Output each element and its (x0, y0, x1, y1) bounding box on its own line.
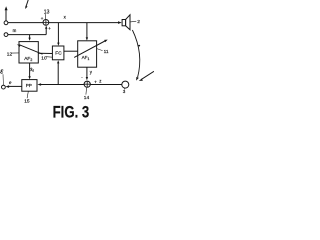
post processor PP (15) (22, 80, 37, 92)
wire: PP output to node e (8, 85, 22, 87)
svg-text:FC: FC (55, 51, 62, 57)
leader for label 13 (44, 14, 47, 19)
svg-text:13: 13 (44, 9, 50, 15)
leader for label 14 (85, 88, 88, 95)
wire: branch from m line down into AF2 (29, 35, 31, 39)
adaptive filter AF1 (11) (78, 41, 97, 67)
wire: junction 14 to PP (40, 84, 84, 86)
leader for label 12 (11, 52, 19, 54)
wire: error branch up into FC bottom (57, 63, 59, 85)
arrow up from node A (5, 10, 7, 21)
svg-text:11: 11 (104, 49, 109, 55)
wire: riser up into junction 13 (45, 28, 47, 34)
leader for label 10 (46, 56, 53, 59)
svg-text:x̂s: x̂s (30, 67, 34, 73)
leader for label 15 (27, 91, 28, 98)
svg-text:15: 15 (24, 99, 30, 105)
loudspeaker 2 (122, 20, 126, 26)
svg-text:+: + (48, 26, 51, 31)
wire 10: AF2 to FC (38, 52, 52, 54)
node B (m input terminal) (4, 33, 8, 37)
leader for label 11 (97, 49, 103, 51)
dot on arc (138, 45, 140, 47)
wire: node B to riser of junction 13 (m line) (8, 34, 46, 36)
summing junction 14 (84, 81, 90, 87)
AF2 adjust diagonal arrow (points up-left) (20, 45, 43, 54)
svg-text:2: 2 (137, 19, 140, 25)
microphone 3 (122, 81, 129, 88)
svg-text:10: 10 (41, 55, 47, 61)
svg-text:e: e (9, 80, 12, 85)
wire: branch from x-rail down to FC (57, 23, 59, 44)
wire: AF1 output down to junction 14 (86, 67, 88, 77)
svg-text:+: + (94, 79, 97, 84)
filter controller FC (52, 46, 64, 60)
wire: node A to summing junction 13 (8, 22, 43, 24)
svg-text:12: 12 (7, 51, 13, 57)
svg-text:+: + (41, 16, 44, 21)
svg-text:z: z (99, 79, 101, 84)
leader arrow 1 (from top edge) (26, 0, 28, 7)
wire: junction 13 to loudspeaker (49, 22, 119, 24)
svg-text:14: 14 (84, 95, 90, 101)
svg-text:3: 3 (123, 89, 126, 94)
svg-text:PP: PP (26, 83, 32, 88)
leader for label 2 (130, 20, 136, 23)
node A (top-left input terminal) (4, 21, 8, 25)
node e (output terminal) (2, 85, 6, 89)
svg-text:FIG. 3: FIG. 3 (53, 103, 90, 120)
adaptive filter AF2 (12) (19, 42, 38, 63)
summing junction 13 (43, 20, 49, 26)
AF1 adjust diagonal arrow (points up-right) (74, 41, 105, 57)
wire: FC to AF1 (64, 50, 78, 52)
leader for label 3 (123, 88, 126, 89)
wire: branch from x-rail down to AF1 (86, 23, 88, 39)
wire: AF2 output xs down into PP (29, 63, 31, 77)
acoustic feedback arc: speaker 2 to mic 3 (132, 30, 139, 77)
svg-text:AF2: AF2 (24, 56, 32, 62)
external sound arrow into mic (141, 71, 154, 79)
wire: microphone to junction 14 (91, 84, 122, 86)
svg-text:m: m (13, 28, 17, 33)
leader from node e to epsilon label (2, 74, 4, 85)
svg-text:AF1: AF1 (82, 55, 90, 61)
